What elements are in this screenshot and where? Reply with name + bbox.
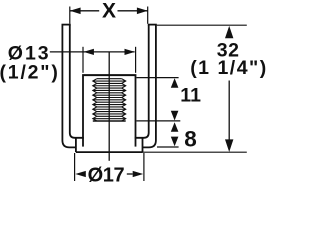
dimension D13 right arrow	[125, 49, 135, 55]
dimension X line	[70, 10, 148, 12]
dimension 11/8 shared extension (thread bottom)	[137, 120, 181, 122]
sleeve top edge	[82, 74, 136, 76]
dimension D13 leader and line	[50, 51, 135, 53]
part: right arm outer contour with J-bottom	[143, 25, 156, 148]
part: left flange step vertical	[75, 138, 77, 152]
dimension 8 down arrow	[171, 137, 179, 147]
thread crest/root lines	[93, 79, 126, 119]
svg-text:(1 1/4"): (1 1/4")	[190, 57, 267, 79]
sleeve right wall	[135, 76, 137, 147]
dimension X left arrow	[70, 8, 81, 15]
centerline	[108, 52, 110, 161]
dimension D17 left arrow	[75, 171, 86, 177]
part: right arm inner edge curling to sleeve	[135, 25, 149, 138]
dimension 32 top extension	[157, 24, 247, 26]
dimension X left extension	[69, 7, 71, 24]
part: right arm top cap	[148, 24, 157, 26]
dimension 32 up arrow	[225, 26, 233, 38]
dimension D13 left extension	[82, 47, 84, 73]
part: left arm outer contour with J-bottom	[62, 25, 76, 148]
thread bottom boundary line	[93, 120, 126, 122]
thread right flank zigzag	[122, 79, 126, 121]
dimension 11 up arrow	[171, 78, 179, 88]
dimension 11 down arrow	[171, 111, 179, 121]
dimension D17 left extension	[74, 153, 76, 181]
svg-text:Ø17: Ø17	[88, 165, 125, 187]
svg-text:(1/2"): (1/2")	[0, 61, 60, 83]
dimension 8 up arrow	[171, 122, 179, 132]
dimension 32 down arrow	[225, 139, 233, 152]
part: right flange step vertical	[142, 138, 144, 152]
dimension 32 bottom extension	[143, 151, 247, 153]
dimension D13 left arrow	[84, 49, 94, 55]
dimension 8 bottom extension	[157, 146, 179, 148]
svg-text:11: 11	[180, 84, 201, 106]
svg-text:8: 8	[184, 126, 197, 151]
part: left arm inner edge curling to sleeve	[70, 25, 84, 138]
dimension D13 right extension	[135, 47, 137, 73]
dimension D17 right arrow	[133, 171, 144, 177]
sleeve left wall	[82, 76, 84, 147]
svg-text:X: X	[102, 0, 116, 23]
thread left flank zigzag	[93, 79, 97, 121]
dimension D17 right arrow tail	[127, 173, 133, 175]
dimension X right arrow	[137, 8, 148, 15]
dimension 32 line lower segment	[228, 81, 230, 140]
dimension D17 right extension	[143, 153, 145, 181]
dimension 11 top extension	[137, 77, 179, 79]
part: flange bottom	[76, 151, 143, 153]
dimension X right extension	[147, 7, 149, 24]
part: left arm top cap	[62, 24, 71, 26]
